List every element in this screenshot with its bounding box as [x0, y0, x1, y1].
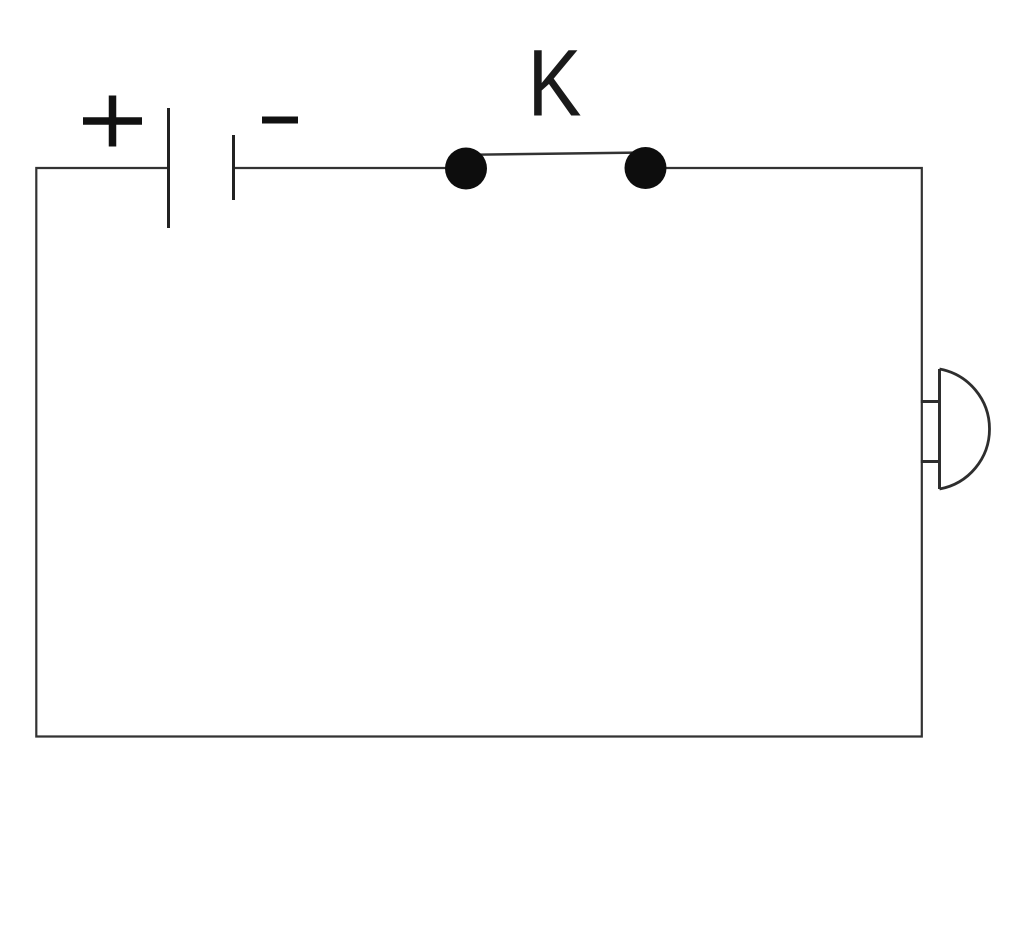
bell lead bottom: [921, 460, 940, 463]
bell flat side (chord): [938, 369, 941, 489]
bell dome arc: [940, 369, 990, 489]
label - (negative terminal): [262, 117, 298, 124]
svg-text:K: K: [528, 31, 582, 137]
switch K left contact dot: [445, 148, 487, 190]
label + (positive terminal): [83, 96, 142, 147]
switch K bar (closed blade): [466, 153, 645, 155]
wire between battery negative plate and switch left contact: [234, 167, 447, 169]
wire main loop: left, bottom, right, top-right segment: [36, 168, 922, 737]
battery B1 negative plate (short): [232, 135, 235, 200]
battery B1 positive plate (long): [167, 108, 170, 228]
switch K right contact dot: [625, 147, 667, 189]
bell lead top: [921, 400, 940, 403]
